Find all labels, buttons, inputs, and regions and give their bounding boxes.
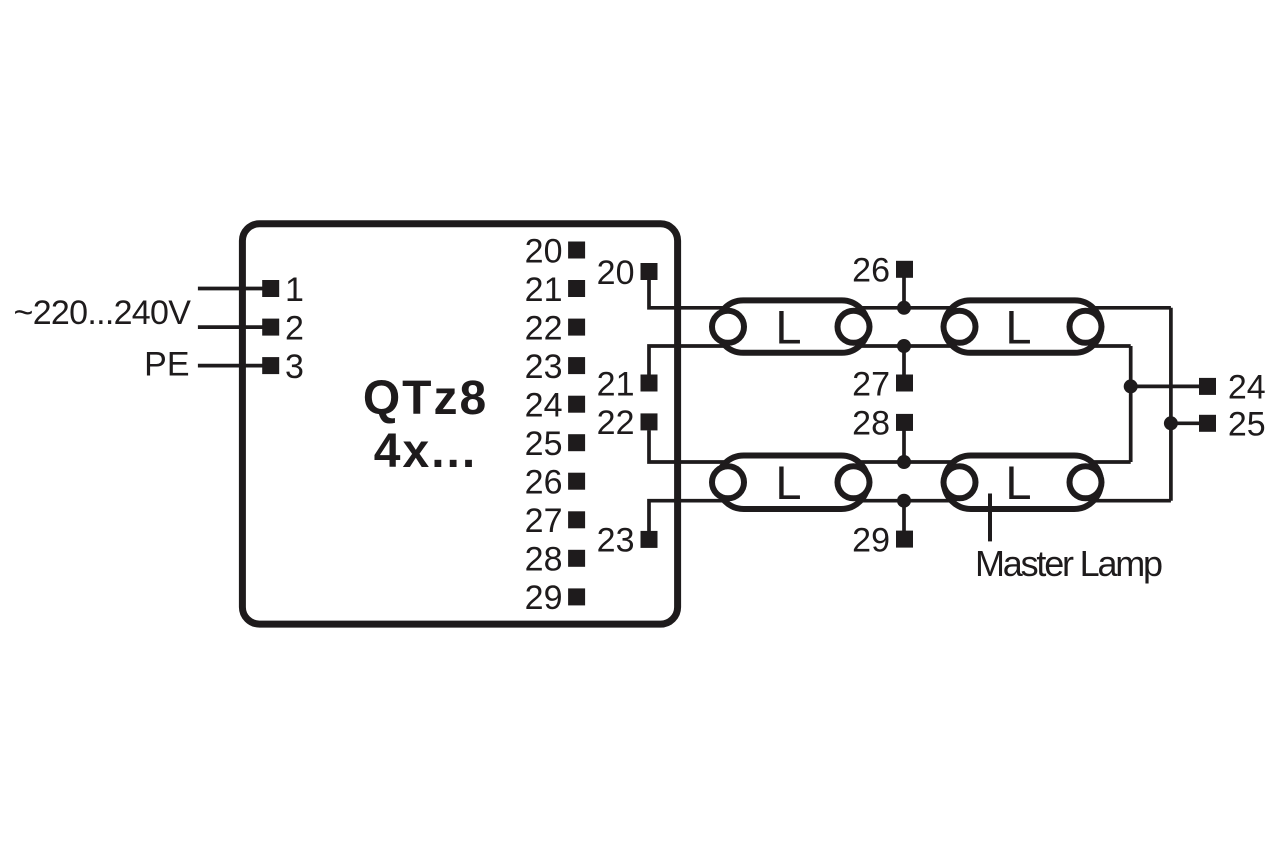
svg-text:27: 27 xyxy=(525,502,563,540)
svg-text:23: 23 xyxy=(597,522,635,560)
svg-text:L: L xyxy=(1005,301,1031,354)
svg-text:2: 2 xyxy=(285,309,304,347)
svg-text:26: 26 xyxy=(852,252,890,290)
svg-text:~220...240V: ~220...240V xyxy=(14,294,192,332)
svg-text:24: 24 xyxy=(525,386,563,424)
svg-text:25: 25 xyxy=(1228,406,1266,444)
svg-text:27: 27 xyxy=(852,365,890,403)
svg-text:4x...: 4x... xyxy=(374,425,477,478)
svg-text:29: 29 xyxy=(852,521,890,559)
svg-text:L: L xyxy=(775,301,801,354)
svg-text:L: L xyxy=(1005,456,1031,509)
svg-text:L: L xyxy=(775,456,801,509)
svg-text:29: 29 xyxy=(525,579,563,617)
svg-text:21: 21 xyxy=(597,365,635,403)
svg-text:Master Lamp: Master Lamp xyxy=(975,543,1162,584)
svg-text:PE: PE xyxy=(144,345,189,383)
svg-text:28: 28 xyxy=(525,541,563,579)
svg-text:23: 23 xyxy=(525,348,563,386)
svg-text:24: 24 xyxy=(1228,369,1266,407)
svg-text:22: 22 xyxy=(597,404,635,442)
svg-text:1: 1 xyxy=(285,271,304,309)
svg-text:25: 25 xyxy=(525,425,563,463)
svg-text:21: 21 xyxy=(525,271,563,309)
svg-text:26: 26 xyxy=(525,464,563,502)
svg-text:QTz8: QTz8 xyxy=(363,372,488,425)
svg-text:20: 20 xyxy=(597,254,635,292)
svg-text:20: 20 xyxy=(525,232,563,270)
svg-text:3: 3 xyxy=(285,348,304,386)
svg-text:22: 22 xyxy=(525,309,563,347)
svg-text:28: 28 xyxy=(852,405,890,443)
